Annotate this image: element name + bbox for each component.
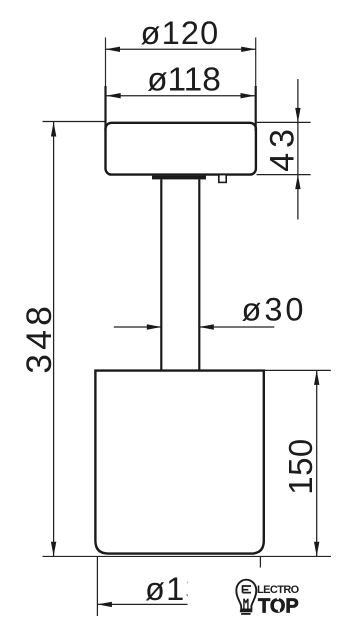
dim 150 dimension line: [316, 370, 318, 556]
dim d30 left line: [114, 326, 162, 328]
logo bulb filament M: [244, 599, 248, 609]
lamp head outline: [106, 123, 256, 175]
dim 43 bottom extension line: [257, 174, 311, 176]
svg-text:ø30: ø30: [241, 292, 306, 328]
svg-text:348: 348: [19, 302, 59, 374]
svg-text:43: 43: [263, 124, 301, 172]
power switch: [219, 175, 226, 183]
dim d120/d118 left extension line thick lower: [104, 86, 106, 131]
dim 43 arrow down: [295, 108, 300, 123]
dim d118 arrow right: [241, 93, 256, 98]
logo stencil notch top of O: [277, 597, 279, 600]
svg-text:LECTRO: LECTRO: [257, 584, 300, 596]
logo bulb outline: [236, 580, 256, 610]
dim d135 left extension line: [96, 557, 98, 616]
stem left edge: [160, 179, 162, 371]
dim 150 top extension line: [265, 369, 331, 371]
logo bulb base stripe 1: [240, 610, 252, 612]
dim 348 / 150 shared bottom extension line: [43, 555, 332, 557]
dim 43 dimension line: [297, 79, 299, 220]
lamp base outline: [95, 371, 263, 554]
dim d135 right extension line stub: [259, 556, 261, 567]
logo white background plate: [188, 568, 354, 630]
dim d120 dimension line: [106, 48, 256, 50]
dim d135 dimension line: [97, 603, 221, 605]
dim d120/d118 right extension line thick lower: [255, 86, 257, 131]
dim d118 arrow left: [106, 93, 121, 98]
dim 43 arrow up: [295, 175, 300, 190]
dim d30 arrow pointing right: [147, 324, 162, 329]
logo bulb base stripe 2: [241, 613, 251, 615]
dim d30 arrow pointing left: [199, 324, 214, 329]
dim 150 arrow down: [314, 542, 319, 557]
dim 150 arrow up: [314, 370, 319, 385]
stem right edge: [198, 179, 200, 371]
svg-text:150: 150: [282, 438, 319, 495]
dim d120 arrow right: [241, 47, 256, 52]
dim 348 top extension line: [43, 121, 105, 123]
svg-text:ø120: ø120: [141, 15, 220, 51]
dim 348 dimension line: [53, 122, 55, 556]
dim d118 dimension line: [106, 95, 255, 97]
svg-text:ø118: ø118: [147, 61, 221, 98]
dim d120 arrow left: [106, 47, 121, 52]
dim 348 arrow down: [51, 542, 56, 557]
dim 43 top extension line: [257, 121, 311, 123]
dim d120/d118 right extension line thin upper: [255, 38, 257, 88]
dim d120/d118 left extension line thin upper: [105, 38, 107, 88]
logo stencil notch bottom of O: [278, 609, 280, 612]
logo bulb letter E: [242, 586, 251, 593]
dim d30 right line: [199, 326, 274, 328]
dim 348 arrow up: [51, 122, 56, 137]
lamp head collar: [152, 176, 206, 180]
dim d135 arrow left: [97, 602, 112, 607]
